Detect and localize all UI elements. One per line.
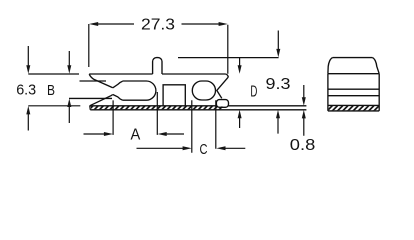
svg-text:D: D bbox=[250, 84, 257, 101]
svg-text:C: C bbox=[200, 141, 208, 158]
svg-text:6.3: 6.3 bbox=[16, 82, 36, 99]
svg-text:B: B bbox=[47, 82, 55, 99]
svg-text:0.8: 0.8 bbox=[290, 137, 316, 154]
svg-text:9.3: 9.3 bbox=[266, 76, 291, 93]
svg-text:A: A bbox=[131, 126, 141, 143]
svg-text:27.3: 27.3 bbox=[141, 17, 175, 34]
